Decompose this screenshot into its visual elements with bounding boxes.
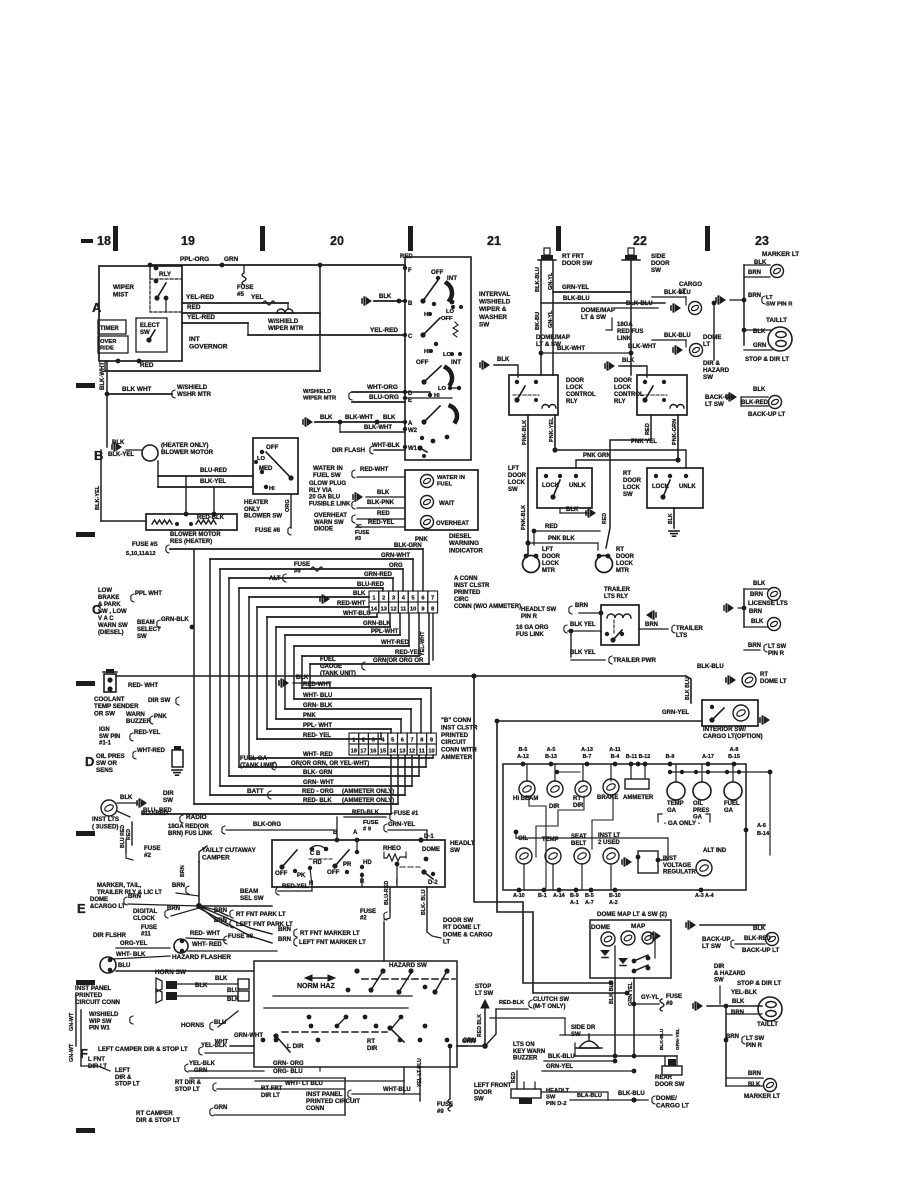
svg-text:YEL-RED: YEL-RED (370, 327, 398, 334)
svg-text:CIRCUIT CONN: CIRCUIT CONN (75, 999, 121, 1006)
svg-text:YEL-BLK: YEL-BLK (189, 1061, 216, 1067)
svg-text:INST LTS: INST LTS (92, 816, 119, 823)
svg-text:STOP LT: STOP LT (115, 1082, 140, 1088)
svg-text:C B: C B (310, 851, 321, 857)
svg-text:LT SW: LT SW (705, 401, 724, 408)
svg-text:WHT-BLU: WHT-BLU (383, 1087, 411, 1093)
svg-text:YEL-BLK: YEL-BLK (201, 1043, 228, 1049)
svg-text:BLK: BLK (379, 294, 392, 300)
svg-text:B: B (333, 830, 338, 836)
svg-text:PIN R: PIN R (521, 614, 538, 620)
svg-text:DIGITAL: DIGITAL (133, 908, 158, 915)
svg-text:SW OR: SW OR (96, 760, 117, 767)
svg-text:14: 14 (371, 606, 378, 612)
svg-text:LT SW: LT SW (702, 943, 721, 950)
svg-text:DOOR: DOOR (508, 473, 527, 479)
svg-text:SW: SW (714, 978, 724, 984)
svg-text:#11: #11 (141, 932, 151, 938)
svg-text:L FNT: L FNT (88, 1057, 105, 1063)
svg-text:GAUGE: GAUGE (320, 664, 342, 670)
svg-text:A-6: A-6 (757, 823, 766, 829)
svg-text:GRN-YEL: GRN-YEL (662, 710, 689, 716)
svg-text:SW: SW (651, 267, 661, 274)
svg-text:SIDE DR: SIDE DR (571, 1025, 596, 1031)
svg-text:C: C (408, 334, 413, 340)
svg-text:V A C: V A C (98, 616, 114, 622)
svg-text:BLK: BLK (732, 999, 745, 1005)
svg-text:B-11 B-12: B-11 B-12 (626, 754, 651, 760)
svg-text:PRES: PRES (693, 808, 709, 814)
svg-text:GLOW PLUG: GLOW PLUG (309, 481, 346, 487)
svg-text:HAZARD FLASHER: HAZARD FLASHER (172, 954, 231, 961)
svg-text:WIP SW: WIP SW (89, 1019, 112, 1025)
svg-text:A-14: A-14 (553, 893, 565, 899)
svg-text:17: 17 (360, 748, 366, 754)
svg-text:1: 1 (352, 737, 355, 743)
svg-text:PIN R: PIN R (746, 1043, 763, 1049)
svg-text:5: 5 (391, 737, 394, 743)
svg-text:BLOWER MOTOR: BLOWER MOTOR (170, 532, 221, 538)
svg-text:RED BLK: RED BLK (477, 1014, 483, 1037)
svg-text:GRN: GRN (194, 1068, 207, 1074)
svg-text:LEFT CAMPER DIR & STOP LT: LEFT CAMPER DIR & STOP LT (98, 1046, 188, 1053)
svg-text:PNK-YEL: PNK-YEL (549, 417, 555, 442)
svg-text:BLK: BLK (296, 675, 309, 681)
svg-text:B-15: B-15 (728, 754, 740, 760)
svg-text:RED: RED (126, 829, 132, 840)
svg-text:DOME: DOME (703, 334, 722, 341)
svg-text:FUEL: FUEL (724, 801, 740, 807)
svg-text:DOOR: DOOR (614, 378, 633, 384)
svg-text:BLK YEL: BLK YEL (570, 622, 596, 628)
svg-text:LEFT: LEFT (115, 1068, 130, 1074)
svg-text:BLK-ORG: BLK-ORG (253, 822, 281, 828)
svg-text:BUZZER: BUZZER (126, 718, 152, 725)
svg-text:BK-BU: BK-BU (535, 312, 541, 330)
svg-text:BRN) FUS LINK: BRN) FUS LINK (168, 831, 213, 837)
svg-text:BLK BLU: BLK BLU (685, 677, 691, 700)
svg-text:8: 8 (431, 606, 434, 612)
svg-text:HI: HI (269, 486, 275, 492)
svg-text:RED: RED (377, 511, 390, 517)
svg-text:10: 10 (410, 606, 416, 612)
svg-text:BLK: BLK (320, 415, 333, 421)
svg-text:WHT- BLU: WHT- BLU (303, 693, 332, 699)
svg-text:STOP & DIR LT: STOP & DIR LT (745, 356, 789, 363)
svg-text:RED: RED (602, 513, 608, 524)
svg-text:SW , LOW: SW , LOW (98, 609, 127, 615)
svg-text:BLK: BLK (383, 415, 396, 421)
svg-text:BRN: BRN (172, 883, 185, 889)
svg-text:FUSE: FUSE (363, 820, 379, 826)
svg-text:BLK: BLK (753, 581, 766, 587)
svg-text:BLK-BLU: BLK-BLU (548, 1054, 575, 1060)
svg-text:PPL-ORG: PPL-ORG (180, 256, 209, 263)
svg-text:DOME LT: DOME LT (760, 679, 787, 685)
svg-text:COOLANT: COOLANT (94, 696, 125, 703)
svg-text:BRN: BRN (748, 643, 761, 649)
svg-text:3: 3 (372, 737, 375, 743)
svg-text:11: 11 (419, 748, 425, 754)
svg-text:BLK-RED: BLK-RED (744, 936, 772, 942)
svg-text:6: 6 (421, 595, 424, 601)
svg-text:BLK-BLU: BLK-BLU (535, 267, 541, 292)
svg-text:RED-BLK: RED-BLK (352, 810, 380, 816)
svg-text:1: 1 (372, 595, 375, 601)
svg-text:LTS: LTS (676, 632, 687, 639)
svg-text:FUSE #S: FUSE #S (132, 541, 158, 548)
svg-text:14: 14 (390, 748, 397, 754)
svg-text:DOME MAP LT & SW (2): DOME MAP LT & SW (2) (597, 911, 667, 918)
svg-text:WHT-RED: WHT-RED (137, 748, 166, 754)
svg-text:SW PIN: SW PIN (99, 734, 120, 740)
svg-text:BLK-BLU: BLK-BLU (697, 664, 724, 670)
svg-text:RT FRT: RT FRT (261, 1086, 283, 1092)
svg-text:GY-YL: GY-YL (641, 995, 659, 1001)
svg-text:RT: RT (616, 547, 624, 553)
svg-text:RED: RED (645, 423, 651, 435)
svg-text:FUEL: FUEL (437, 481, 453, 487)
svg-text:A-2: A-2 (609, 900, 618, 906)
svg-text:A: A (353, 830, 358, 836)
svg-text:LT SW: LT SW (746, 1036, 765, 1042)
svg-text:GN-WT: GN-WT (69, 1012, 75, 1031)
svg-text:DOOR: DOOR (474, 1090, 493, 1096)
svg-text:PRINTED: PRINTED (441, 732, 469, 739)
svg-text:LOCK: LOCK (542, 561, 560, 567)
svg-text:W/SHIELD: W/SHIELD (177, 384, 208, 391)
svg-text:A-3 A-4: A-3 A-4 (695, 893, 714, 899)
svg-text:RED-YEL: RED-YEL (282, 884, 309, 890)
svg-text:#2: #2 (360, 916, 367, 922)
svg-text:BLK- BLU: BLK- BLU (421, 889, 427, 915)
svg-text:20: 20 (330, 234, 344, 248)
svg-text:PPL- WHT: PPL- WHT (303, 723, 332, 729)
svg-text:AMMETER: AMMETER (441, 754, 473, 761)
svg-text:YEL-BLK: YEL-BLK (731, 990, 758, 996)
svg-text:WIPER: WIPER (113, 284, 134, 291)
svg-text:BRN: BRN (748, 1071, 761, 1077)
svg-text:OFF: OFF (416, 359, 429, 366)
svg-text:DOME/MAP: DOME/MAP (581, 307, 615, 314)
svg-text:BLK-WHT: BLK-WHT (345, 415, 373, 421)
svg-text:GRN-YEL: GRN-YEL (388, 822, 415, 828)
svg-text:BLK: BLK (622, 358, 635, 364)
svg-text:B-7: B-7 (583, 754, 592, 760)
svg-text:FUSE: FUSE (144, 845, 161, 852)
svg-text:RLY: RLY (159, 271, 172, 278)
svg-text:18: 18 (351, 748, 357, 754)
svg-text:REGULATR: REGULATR (663, 870, 697, 876)
svg-text:CONN WITH: CONN WITH (441, 747, 477, 754)
svg-text:SW: SW (508, 487, 518, 493)
svg-text:YEL-RED: YEL-RED (187, 314, 215, 321)
svg-text:5: 5 (412, 595, 415, 601)
svg-text:A: A (408, 421, 413, 427)
svg-text:BLK: BLK (377, 490, 390, 496)
svg-text:DIR SW: DIR SW (148, 697, 171, 704)
svg-text:GRN(OR ORG OR: GRN(OR ORG OR (373, 658, 424, 664)
svg-text:WATER IN: WATER IN (437, 475, 465, 481)
svg-text:BLK: BLK (353, 591, 366, 597)
svg-text:PRINTED CIRCUIT: PRINTED CIRCUIT (306, 1098, 360, 1105)
svg-text:ORG- BLU: ORG- BLU (273, 1069, 303, 1075)
svg-text:HEADLT: HEADLT (546, 1088, 570, 1094)
svg-text:W/SHIELD: W/SHIELD (268, 318, 299, 325)
svg-text:TAILLT: TAILLT (766, 317, 787, 324)
svg-text:RADIO: RADIO (186, 814, 207, 821)
svg-text:SELECT: SELECT (137, 627, 161, 633)
svg-text:ORG: ORG (285, 499, 291, 512)
svg-text:LOCK: LOCK (508, 480, 526, 486)
svg-text:BLU-RED: BLU-RED (357, 582, 385, 588)
svg-text:PPL-WHT: PPL-WHT (371, 629, 399, 635)
svg-text:LTS ON: LTS ON (513, 1042, 535, 1048)
svg-text:INDICATOR: INDICATOR (449, 547, 483, 554)
svg-text:OFF: OFF (441, 316, 453, 322)
svg-text:(DIESEL): (DIESEL) (98, 630, 124, 636)
svg-text:SEL SW: SEL SW (240, 895, 264, 902)
svg-text:RED- WHT: RED- WHT (128, 683, 158, 689)
svg-text:BRN: BRN (748, 270, 761, 276)
svg-text:BLOWER SW: BLOWER SW (244, 514, 282, 520)
svg-text:DIR LT: DIR LT (261, 1093, 280, 1099)
svg-text:DOME & CARGO: DOME & CARGO (443, 931, 493, 938)
svg-text:RED- BLK: RED- BLK (303, 798, 332, 804)
svg-text:E: E (77, 901, 86, 916)
svg-text:AMMETER: AMMETER (623, 795, 654, 801)
svg-text:STOP LT: STOP LT (175, 1087, 200, 1093)
svg-text:OIL: OIL (693, 801, 703, 807)
svg-text:# 9: # 9 (363, 826, 372, 832)
svg-text:WARN SW: WARN SW (314, 520, 344, 526)
svg-text:BRN: BRN (180, 865, 186, 877)
svg-text:DIODE: DIODE (314, 527, 333, 533)
svg-text:DIESEL: DIESEL (449, 533, 472, 540)
svg-text:DOOR: DOOR (651, 260, 670, 267)
svg-text:LT & SW: LT & SW (581, 314, 606, 321)
svg-text:VOLTAGE: VOLTAGE (663, 863, 691, 869)
svg-text:HD: HD (313, 860, 322, 866)
svg-text:WHT-ORG: WHT-ORG (367, 384, 398, 391)
svg-text:TRAILER PWR: TRAILER PWR (613, 657, 656, 664)
svg-text:CAMPER: CAMPER (202, 854, 230, 861)
svg-text:OFF: OFF (431, 269, 444, 276)
svg-text:BACK-UP LT: BACK-UP LT (742, 947, 779, 954)
svg-text:LO: LO (438, 386, 447, 392)
svg-text:RED: RED (187, 304, 201, 311)
svg-text:GOVERNOR: GOVERNOR (189, 344, 228, 351)
svg-text:RT DIR &: RT DIR & (175, 1080, 202, 1086)
svg-text:A CONN: A CONN (454, 576, 477, 582)
svg-text:GRN-BLK: GRN-BLK (161, 617, 189, 623)
svg-text:PNK: PNK (154, 714, 167, 720)
svg-text:SW: SW (474, 1097, 484, 1103)
svg-text:BLK-WHT: BLK-WHT (364, 425, 392, 431)
svg-text:GRN: GRN (224, 256, 239, 263)
svg-text:#2: #2 (144, 852, 151, 859)
svg-text:BLU RED: BLU RED (120, 825, 126, 848)
svg-text:PRINTED: PRINTED (454, 590, 481, 596)
svg-text:PPL WHT: PPL WHT (135, 591, 162, 597)
svg-text:TAILLT CUTAWAY: TAILLT CUTAWAY (202, 847, 256, 854)
svg-text:RED- YEL: RED- YEL (303, 733, 331, 739)
svg-text:23: 23 (755, 234, 769, 248)
svg-text:SW: SW (140, 330, 150, 336)
svg-text:UNLK: UNLK (569, 483, 586, 489)
svg-text:B-13: B-13 (545, 754, 557, 760)
svg-text:BLK: BLK (566, 507, 579, 513)
svg-text:DOOR SW: DOOR SW (443, 917, 473, 924)
svg-text:MARKER LT: MARKER LT (762, 251, 799, 258)
svg-text:GA: GA (667, 808, 677, 814)
svg-text:13: 13 (399, 748, 405, 754)
svg-text:KEY WARN: KEY WARN (513, 1049, 545, 1055)
svg-text:HEATER: HEATER (244, 500, 269, 506)
svg-text:ORG-YEL: ORG-YEL (120, 941, 148, 947)
svg-text:RLY VIA: RLY VIA (309, 488, 333, 494)
svg-text:DIR: DIR (163, 790, 174, 797)
svg-text:LO: LO (446, 309, 455, 315)
svg-text:RT DOME LT: RT DOME LT (443, 924, 481, 931)
svg-text:LFT: LFT (542, 547, 553, 553)
svg-text:BLU: BLU (118, 963, 130, 969)
svg-text:10: 10 (428, 748, 434, 754)
svg-text:DOOR SW: DOOR SW (655, 1082, 685, 1088)
svg-text:FUSE: FUSE (360, 909, 376, 915)
svg-text:A-13: A-13 (581, 747, 593, 753)
svg-text:MIST: MIST (113, 291, 128, 298)
svg-text:INT: INT (189, 336, 200, 343)
svg-text:RED - ORG: RED - ORG (302, 789, 334, 795)
svg-text:& HAZARD: & HAZARD (714, 971, 746, 977)
svg-text:BLU-RED: BLU-RED (200, 468, 228, 474)
svg-text:LOW: LOW (98, 588, 112, 594)
svg-text:WHT- RED: WHT- RED (192, 942, 222, 948)
svg-text:H: H (309, 881, 313, 887)
svg-text:BRN: BRN (748, 293, 761, 299)
svg-text:16: 16 (370, 748, 376, 754)
svg-text:BACK-UP: BACK-UP (702, 936, 731, 943)
svg-text:W/SHIELD: W/SHIELD (89, 1012, 119, 1018)
svg-text:DOOR: DOOR (616, 554, 635, 560)
svg-text:WATER IN: WATER IN (313, 465, 343, 472)
svg-text:BELT: BELT (571, 841, 587, 847)
svg-text:WHT-BLK: WHT-BLK (372, 443, 400, 449)
svg-text:BRN: BRN (749, 609, 762, 615)
svg-text:B-9: B-9 (570, 893, 579, 899)
svg-text:RED-YEL: RED-YEL (395, 650, 422, 656)
svg-text:SW: SW (450, 847, 460, 854)
svg-text:DIR: DIR (714, 964, 725, 970)
svg-text:MARKER LT: MARKER LT (744, 1093, 780, 1100)
svg-text:WHT- LT BLU: WHT- LT BLU (285, 1081, 323, 1087)
svg-text:DIR &: DIR & (703, 360, 720, 367)
svg-text:E: E (408, 398, 412, 404)
svg-text:DOME/: DOME/ (656, 1095, 677, 1102)
svg-text:WHT-RED: WHT-RED (381, 640, 410, 646)
svg-text:INT: INT (451, 359, 461, 366)
svg-text:PNK: PNK (303, 713, 316, 719)
svg-text:#9: #9 (437, 1109, 444, 1115)
svg-text:RLY: RLY (566, 399, 577, 405)
svg-text:DIR FLASH: DIR FLASH (332, 447, 366, 454)
svg-text:19: 19 (181, 234, 195, 248)
svg-text:DOME: DOME (591, 924, 611, 931)
svg-text:BLK-BLU: BLK-BLU (659, 1028, 665, 1050)
svg-text:#5: #5 (237, 291, 244, 298)
svg-text:FUS LINK: FUS LINK (516, 632, 544, 638)
svg-text:BRAKE: BRAKE (597, 795, 618, 801)
svg-text:W/SHIELD: W/SHIELD (303, 389, 331, 395)
svg-text:(AMMETER ONLY): (AMMETER ONLY) (342, 789, 394, 795)
svg-text:12: 12 (390, 606, 396, 612)
svg-text:DIR: DIR (573, 803, 584, 809)
svg-text:DOME: DOME (422, 847, 440, 853)
svg-text:FUSE #6: FUSE #6 (255, 527, 281, 534)
svg-text:SW: SW (546, 1095, 556, 1101)
svg-text:13: 13 (381, 606, 387, 612)
svg-text:RHEO: RHEO (383, 845, 401, 852)
svg-text:CONN: CONN (306, 1105, 325, 1112)
svg-text:TAILLT: TAILLT (757, 1021, 778, 1028)
svg-text:ONLY: ONLY (244, 507, 260, 513)
svg-text:L DIR: L DIR (287, 1043, 304, 1050)
svg-text:&CARGO LT: &CARGO LT (90, 904, 126, 910)
svg-text:A-12: A-12 (517, 754, 529, 760)
svg-text:A-1: A-1 (570, 900, 579, 906)
svg-text:RED-WHT: RED-WHT (360, 467, 389, 473)
svg-text:WIPER MTR: WIPER MTR (268, 325, 304, 332)
svg-text:GRN-RED: GRN-RED (364, 572, 393, 578)
svg-text:YEL-RED: YEL-RED (186, 294, 214, 301)
svg-text:15: 15 (380, 748, 386, 754)
svg-text:BLK-WHT: BLK-WHT (628, 344, 656, 350)
svg-text:CONN (W/O AMMETER): CONN (W/O AMMETER) (454, 604, 521, 610)
svg-text:GRN- ORG: GRN- ORG (273, 1061, 304, 1067)
svg-text:B-1: B-1 (538, 893, 547, 899)
svg-text:GRN-BLK: GRN-BLK (363, 621, 391, 627)
svg-text:B-14: B-14 (757, 831, 770, 837)
svg-text:LO: LO (257, 456, 266, 462)
svg-text:CLOCK: CLOCK (133, 915, 156, 922)
svg-text:BLK-BLU: BLK-BLU (664, 290, 691, 296)
svg-text:MTR: MTR (616, 568, 630, 574)
svg-text:IGN: IGN (99, 727, 110, 733)
svg-text:RT: RT (760, 672, 768, 678)
svg-text:#3: #3 (355, 536, 361, 542)
svg-text:RED: RED (511, 1072, 517, 1083)
svg-text:2: 2 (382, 595, 385, 601)
svg-text:A-17: A-17 (702, 754, 714, 760)
svg-text:BLK-YEL: BLK-YEL (108, 452, 134, 458)
svg-text:RT: RT (623, 471, 631, 477)
svg-text:GRN-YEL: GRN-YEL (546, 1064, 573, 1070)
svg-text:MTR: MTR (542, 568, 556, 574)
svg-text:BLK-RED: BLK-RED (741, 400, 769, 406)
svg-text:BRN: BRN (645, 622, 658, 628)
svg-text:B-8: B-8 (666, 754, 675, 760)
svg-text:FUSE: FUSE (437, 1102, 453, 1108)
svg-text:BLA-BLU: BLA-BLU (577, 1093, 602, 1099)
svg-text:HI BEAM: HI BEAM (513, 796, 538, 802)
svg-text:BLK: BLK (753, 926, 766, 932)
svg-text:BRN: BRN (750, 592, 763, 598)
svg-text:WHT- RED: WHT- RED (303, 752, 333, 758)
svg-text:20 GA BLU: 20 GA BLU (309, 495, 340, 501)
svg-text:B-5: B-5 (519, 747, 528, 753)
svg-text:SW: SW (623, 492, 633, 498)
